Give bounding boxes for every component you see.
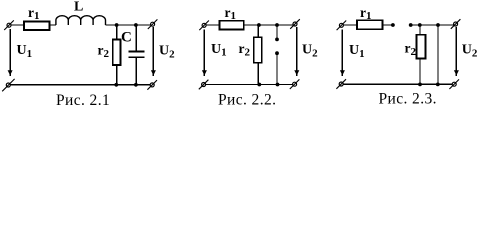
voltage arrow U1 [340, 29, 345, 76]
node open terminal upper [275, 38, 279, 42]
wire open branch bottom [276, 54, 278, 85]
wire C branch bottom [135, 58, 137, 85]
node (junction dot bottom) [134, 83, 138, 87]
wire [244, 24, 293, 26]
terminal T1 top-left [199, 21, 209, 31]
wire open branch top [276, 25, 278, 39]
terminal T4 bottom-right [147, 80, 157, 90]
wire r2 branch top [419, 25, 421, 35]
node open terminal lower [275, 51, 279, 55]
terminal T1 top-left [337, 21, 347, 31]
wire bottom [343, 83, 452, 85]
resistor r2 [254, 37, 262, 63]
node (junction dot) [436, 23, 440, 27]
svg-text:L: L [74, 0, 83, 15]
wire right vertical branch [437, 25, 439, 84]
wire r2 branch bottom [419, 59, 421, 85]
terminal T4 bottom-right [449, 79, 459, 89]
wire [206, 24, 219, 26]
wire [411, 24, 454, 26]
node (junction dot) [418, 23, 422, 27]
node (junction dot bottom) [114, 83, 118, 87]
resistor r1 [24, 22, 50, 31]
terminal T2 top-right [290, 19, 300, 29]
node (junction dot bottom) [436, 83, 440, 87]
wire r2 branch bottom [257, 63, 259, 85]
node (junction dot bottom) [276, 83, 280, 87]
wire to open gap [383, 24, 393, 26]
svg-text:C: C [121, 30, 132, 46]
wire C branch top [135, 25, 137, 51]
node (junction dot) [134, 23, 138, 27]
resistor r1 [220, 21, 244, 30]
node (junction dot) [115, 23, 119, 27]
terminal T3 bottom-left [336, 79, 346, 89]
terminal T2 top-right [451, 19, 461, 29]
node (junction dot) [257, 23, 261, 27]
inductor L [56, 16, 106, 25]
wire [343, 24, 357, 26]
svg-text:Рис. 2.2.: Рис. 2.2. [218, 92, 276, 109]
wire [11, 24, 24, 26]
wire bottom [10, 84, 150, 86]
voltage arrow U2 [151, 27, 156, 76]
voltage arrow U2 [294, 27, 299, 76]
terminal T3 bottom-left [199, 80, 209, 90]
terminal T4 bottom-right [290, 79, 300, 89]
terminal T2 top-right [148, 19, 158, 29]
svg-text:Рис. 2.3.: Рис. 2.3. [379, 91, 437, 108]
resistor r2 [417, 35, 426, 59]
wire bottom [206, 84, 293, 86]
wire r2 branch top [116, 25, 118, 40]
wire [105, 24, 150, 26]
node (junction dot bottom) [418, 83, 422, 87]
capacitor C [128, 51, 144, 57]
voltage arrow U1 [8, 29, 13, 76]
resistor r2 [113, 40, 121, 66]
node open terminal left [391, 23, 395, 27]
wire [50, 24, 56, 26]
node open terminal right [409, 23, 413, 27]
wire r2 branch bottom [116, 65, 118, 85]
resistor r1 [357, 20, 383, 29]
voltage arrow U1 [202, 29, 207, 76]
node (junction dot) [275, 23, 279, 27]
terminal T3 bottom-left [2, 79, 14, 91]
wire r2 branch top [257, 25, 259, 37]
terminal T1 top-left [4, 20, 14, 30]
voltage arrow U2 [454, 27, 459, 76]
svg-text:Рис. 2.1: Рис. 2.1 [56, 92, 110, 109]
node (junction dot bottom) [257, 83, 261, 87]
